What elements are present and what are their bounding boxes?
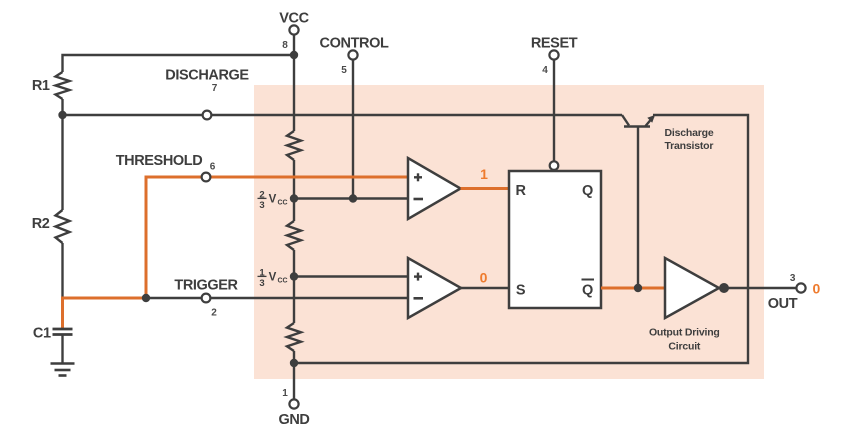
svg-text:OUT: OUT [768,296,798,312]
svg-text:2: 2 [211,307,217,318]
resistor R2 [56,210,70,243]
svg-text:CC: CC [278,199,288,206]
node VCC junction [290,51,298,59]
node control junction [349,194,357,202]
svg-text:3: 3 [259,278,264,289]
label 1/3 Vcc [258,267,288,289]
comparator2 minus sign [414,297,424,300]
svg-text:4: 4 [542,65,548,76]
wire Q-bar output orange [601,287,665,290]
555 IC internal shaded region [254,85,764,379]
svg-text:C1: C1 [33,326,51,342]
svg-text:Output Driving: Output Driving [649,327,720,339]
comparator1 plus sign [414,173,422,181]
wire transistor base vertical [637,127,639,288]
svg-text:Transistor: Transistor [665,140,714,152]
node trigger junction [142,294,150,302]
resistor divider middle [287,221,301,250]
wire ground return bottom and right side loop [294,115,748,363]
wire divider upper mid [293,160,295,221]
pin 6 circle on threshold wire [202,173,211,182]
svg-text:6: 6 [210,161,216,172]
reset inverter bubble [550,161,559,170]
pin 7 circle on discharge wire [203,111,212,120]
node bottom divider junction [290,359,298,367]
label 2/3 Vcc [258,189,288,211]
svg-text:Q: Q [582,283,593,299]
resistor R1 [56,72,70,99]
svg-text:Discharge: Discharge [665,127,714,139]
svg-text:DISCHARGE: DISCHARGE [165,67,249,83]
svg-text:CC: CC [278,277,288,284]
wire divider lower mid [293,250,295,323]
svg-text:1: 1 [480,166,488,182]
svg-text:1: 1 [282,388,288,399]
wire 2/3 Vcc to comparator1 minus [294,197,408,199]
ground symbol [51,364,75,376]
svg-text:8: 8 [282,40,288,51]
svg-text:R: R [515,183,526,199]
flip-flop U1 box [509,171,601,308]
terminal VCC [289,25,298,34]
terminal OUT [796,283,805,292]
node output dot [719,283,729,293]
op-amp comparator 1 [408,158,461,219]
svg-text:S: S [516,283,526,299]
svg-text:Circuit: Circuit [668,341,701,353]
node base junction on Q-bar wire [634,284,642,292]
wire RESET vertical [553,60,555,161]
svg-text:R2: R2 [32,216,50,232]
wire comparator2 output to S [461,287,509,289]
svg-text:Q: Q [582,183,593,199]
wire divider to GND terminal [293,351,295,399]
wire OUT from buffer [724,287,796,289]
svg-text:0: 0 [813,281,821,297]
svg-text:V: V [269,194,277,206]
node discharge junction [58,111,66,119]
transistor Q1 collector lead [622,115,629,126]
svg-text:THRESHOLD: THRESHOLD [116,153,203,169]
svg-text:3: 3 [790,273,796,284]
resistor divider bottom [287,323,301,351]
svg-text:0: 0 [480,270,488,286]
wire comparator1 output orange [461,187,510,190]
terminal GND [289,399,298,408]
terminal RESET [549,50,558,59]
wire R2 bottom to trigger corner [61,243,63,297]
pin 2 circle on trigger wire [202,294,211,303]
svg-text:V: V [269,272,277,284]
wire 1/3 Vcc to comparator2 plus [294,275,408,277]
transistor Q1 base bar [624,125,650,127]
node 2/3 Vcc [290,194,298,202]
buffer output driving circuit [665,258,719,318]
svg-text:VCC: VCC [279,10,309,26]
label Discharge Transistor [665,127,714,152]
wire left vertical R1 to R2 [61,99,63,210]
wire VCC divider column [293,55,295,131]
capacitor C1 [53,329,73,363]
svg-text:3: 3 [259,200,264,211]
wire threshold orange [63,177,409,329]
comparator1 minus sign [414,198,424,201]
flip-flop label Q-bar [582,280,595,299]
svg-text:RESET: RESET [531,35,578,51]
wire CONTROL vertical [352,60,354,199]
wire discharge line [63,114,623,116]
svg-text:5: 5 [341,65,347,76]
terminal CONTROL [348,50,357,59]
svg-text:7: 7 [212,83,218,94]
node 1/3 Vcc [290,272,298,280]
svg-text:GND: GND [278,412,309,428]
label Output Driving Circuit [649,327,720,353]
svg-text:TRIGGER: TRIGGER [174,277,238,293]
transistor Q1 emitter lead with arrow [646,115,656,126]
wire VCC top horizontal to R1 [63,35,295,72]
op-amp comparator 2 [408,258,461,318]
resistor divider top [287,131,301,160]
wire trigger line [146,297,408,299]
comparator2 plus sign [414,273,422,281]
svg-text:R1: R1 [32,78,50,94]
svg-text:CONTROL: CONTROL [320,35,389,51]
